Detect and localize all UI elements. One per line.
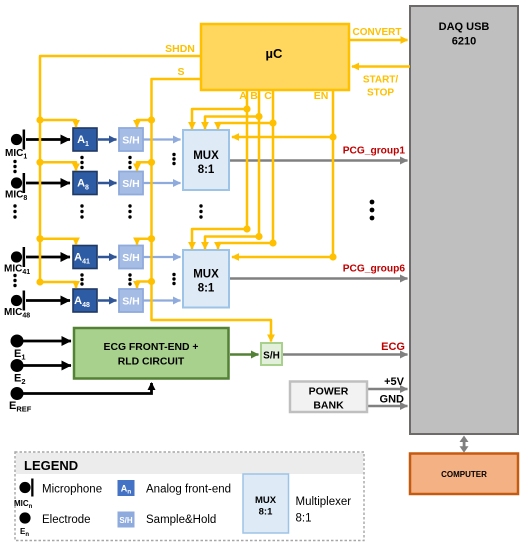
svg-text:MUX: MUX (255, 495, 277, 506)
svg-text:C: C (264, 90, 272, 102)
svg-text:MUX: MUX (193, 269, 219, 281)
svg-text:Sample&Hold: Sample&Hold (146, 514, 216, 526)
svg-text:DAQ USB: DAQ USB (439, 21, 490, 33)
svg-text:START/: START/ (363, 75, 399, 86)
svg-text:S/H: S/H (122, 135, 140, 147)
svg-text:PCG_group6: PCG_group6 (343, 264, 406, 275)
svg-text:8:1: 8:1 (296, 513, 312, 525)
svg-text:BANK: BANK (313, 400, 344, 412)
svg-text:CONVERT: CONVERT (353, 27, 402, 38)
svg-text:B: B (250, 90, 258, 102)
svg-text:EN: EN (314, 90, 329, 102)
svg-text:S: S (177, 66, 184, 78)
svg-text:COMPUTER: COMPUTER (441, 470, 487, 479)
svg-text:MUX: MUX (193, 150, 219, 162)
svg-text:S/H: S/H (263, 351, 280, 362)
svg-text:POWER: POWER (309, 386, 349, 398)
svg-text:+5V: +5V (384, 376, 405, 388)
svg-text:8:1: 8:1 (259, 507, 273, 518)
svg-text:µC: µC (266, 46, 283, 61)
svg-text:Electrode: Electrode (42, 514, 91, 526)
svg-text:S/H: S/H (122, 296, 140, 308)
svg-text:SHDN: SHDN (165, 43, 195, 55)
svg-text:ECG FRONT-END +: ECG FRONT-END + (104, 342, 199, 353)
svg-text:S/H: S/H (122, 252, 140, 264)
svg-text:8:1: 8:1 (198, 283, 215, 295)
svg-text:RLD CIRCUIT: RLD CIRCUIT (118, 357, 185, 368)
svg-text:6210: 6210 (452, 36, 476, 48)
svg-text:Microphone: Microphone (42, 484, 102, 496)
svg-text:8:1: 8:1 (198, 164, 215, 176)
svg-text:A: A (239, 90, 247, 102)
svg-text:ECG: ECG (381, 341, 405, 353)
svg-text:Multiplexer: Multiplexer (296, 496, 352, 508)
svg-text:LEGEND: LEGEND (24, 458, 78, 473)
svg-text:STOP: STOP (367, 88, 394, 99)
svg-text:S/H: S/H (119, 516, 133, 525)
svg-text:GND: GND (380, 394, 405, 406)
svg-text:Analog front-end: Analog front-end (146, 484, 231, 496)
svg-text:S/H: S/H (122, 178, 140, 190)
svg-text:PCG_group1: PCG_group1 (343, 146, 406, 157)
